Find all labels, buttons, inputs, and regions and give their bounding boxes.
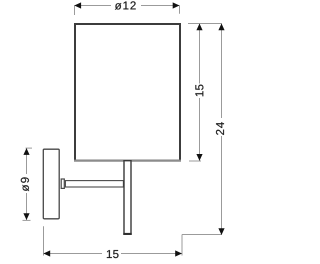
label ø9 bbox=[21, 177, 29, 191]
label 15 bbox=[107, 250, 119, 258]
extension line right bbox=[181, 235, 183, 256]
dimension 24 (overall height, far right) bbox=[182, 24, 225, 236]
arrow left bbox=[74, 2, 81, 8]
dimension 15 (shade height, right) bbox=[188, 24, 222, 162]
arrow left bbox=[43, 250, 50, 256]
extension line left bbox=[43, 226, 45, 255]
extension line top (shared with 24) bbox=[188, 23, 222, 25]
dimension ø9 (wall plate height, left) bbox=[21, 148, 32, 220]
extension line right bbox=[179, 6, 181, 14]
dimension line bbox=[43, 253, 102, 255]
lampshade outline bbox=[74, 24, 181, 161]
arrow down bbox=[196, 154, 202, 161]
dimension line bbox=[26, 148, 28, 174]
arrow up bbox=[196, 24, 202, 31]
horizontal arm bbox=[65, 181, 123, 187]
extension line left bbox=[74, 6, 76, 16]
dimension line bbox=[221, 24, 223, 119]
dimension 15 (depth, bottom) bbox=[43, 226, 182, 258]
arm collar bbox=[61, 179, 64, 188]
label 15 bbox=[195, 85, 203, 97]
arrow up bbox=[218, 24, 224, 31]
wall mount plate bbox=[43, 149, 59, 219]
arrow right bbox=[173, 2, 180, 8]
arrow down bbox=[23, 213, 29, 220]
arrow up bbox=[23, 148, 29, 155]
arrow down bbox=[218, 228, 224, 235]
extension line top bbox=[26, 147, 33, 149]
extension line bottom bbox=[23, 219, 31, 221]
label 24 bbox=[216, 122, 224, 135]
dimension line bbox=[199, 24, 201, 84]
extension line bottom bbox=[189, 160, 201, 162]
dimension line bbox=[74, 5, 111, 7]
dimension ø12 (shade width, top) bbox=[74, 1, 179, 15]
arrow right bbox=[175, 250, 182, 256]
vertical stem tube bbox=[123, 161, 131, 235]
extension line bottom bbox=[182, 234, 222, 236]
label ø12 bbox=[115, 1, 136, 9]
